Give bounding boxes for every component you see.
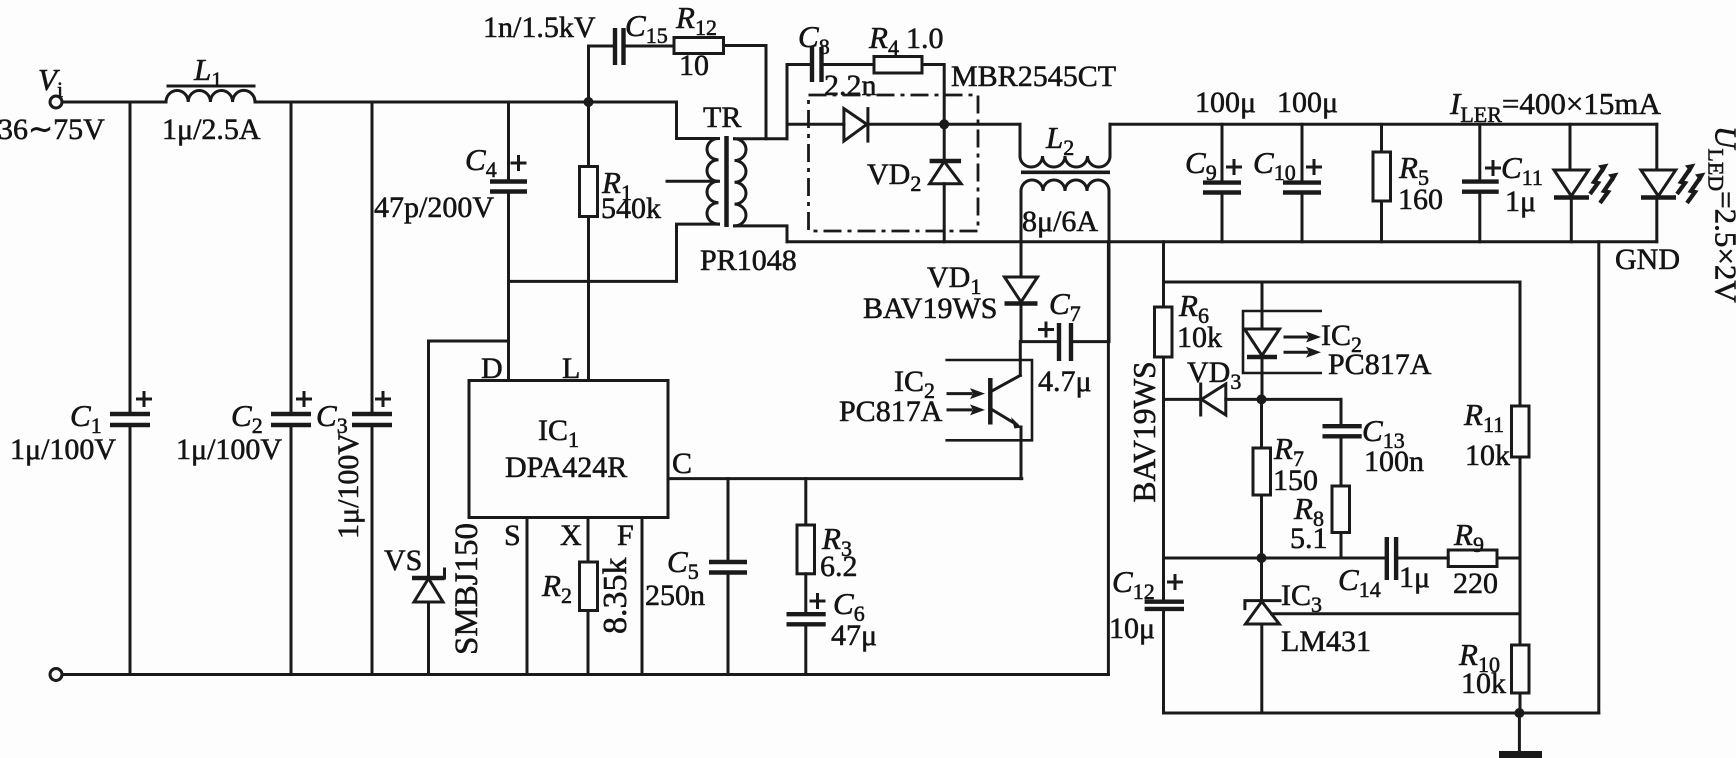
svg-text:TR: TR [703,101,741,134]
wire R12 to secondary top stub [724,46,767,139]
svg-text:BAV19WS: BAV19WS [1127,361,1162,502]
capacitor C6 [787,595,826,625]
diode VD3 [1201,384,1226,415]
wire secondary rail y=124 into rectifier [787,123,844,126]
svg-text:10: 10 [679,49,709,82]
svg-text:1μ: 1μ [1505,185,1536,218]
wire mid feedback rail [1164,557,1387,560]
svg-text:C3: C3 [316,398,348,438]
node junction dot at R1/C15 tap [584,97,594,107]
resistor R7 [1253,448,1271,495]
svg-text:VS: VS [384,544,422,577]
svg-text:F: F [617,519,634,552]
svg-text:L2: L2 [1045,120,1074,160]
wire R5 top [1380,124,1383,152]
resistor R3 [797,525,815,574]
wire secondary top riser to C8 [787,65,812,139]
wire LED1 bottom [1570,198,1573,242]
resistor R2 [580,562,598,611]
wire primary bottom rail [62,673,1108,676]
svg-text:X: X [560,519,582,552]
svg-text:PC817A: PC817A [1328,348,1432,381]
diode VS SMBJ150 (TVS) [412,569,445,602]
resistor R11 [1512,406,1530,457]
LED2 [1641,164,1706,204]
wire LED1 top [1569,124,1572,170]
op-to box IC2 transistor side [945,360,1032,440]
wire VD2 top [943,124,946,161]
svg-text:10k: 10k [1177,321,1222,354]
svg-text:GND: GND [1615,243,1680,276]
svg-text:C11: C11 [1501,150,1543,190]
wire R3 top [804,479,807,525]
inductor L2 bottom winding [1021,180,1109,191]
wire right riser x=1109 [1107,242,1110,675]
svg-text:R12: R12 [675,0,717,40]
svg-text:R9: R9 [1453,517,1484,557]
wire R3 to C6 [804,574,807,614]
svg-text:C: C [672,447,692,480]
svg-text:LM431: LM431 [1281,625,1371,658]
node dot ground junction [1514,708,1524,718]
svg-text:MBR2545CT: MBR2545CT [951,60,1116,93]
wire VD2 anode down to return rail [943,184,946,242]
capacitor C14 [1387,537,1396,580]
svg-text:1.0: 1.0 [906,22,944,55]
svg-text:IC3: IC3 [1281,579,1322,617]
wire C9 column lower [1221,193,1224,242]
svg-text:1μ/100V: 1μ/100V [10,433,116,466]
svg-text:R2: R2 [541,568,572,608]
wire R7 bottom [1260,495,1263,558]
wire C14 to R9 [1396,557,1448,560]
wire TR secondary bottom stub [735,226,788,242]
wire C11 column lower [1478,192,1481,242]
wire X pin to R2 [587,518,590,563]
light arrows out of IC2 LED [1285,332,1321,358]
svg-text:160: 160 [1398,183,1443,216]
wire from C4 column to transformer return (y=281) [509,226,677,282]
svg-text:6.2: 6.2 [820,550,858,583]
wire C5 bottom [727,573,730,675]
wire IC3 anode down [1260,624,1263,713]
resistor R12 [674,38,724,54]
svg-text:C15: C15 [625,8,668,48]
svg-text:VD3: VD3 [1187,356,1241,394]
wire C3 column lower [371,425,374,675]
wire C8 to R4 [822,63,875,66]
wire F pin [641,518,644,675]
svg-text:IC1: IC1 [538,414,579,452]
wire diode to node [867,123,1020,126]
wire feedback left column from return rail [1162,242,1165,307]
wire top rail left (terminal to L1) [62,101,166,104]
svg-text:BAV19WS: BAV19WS [863,292,997,325]
svg-text:R4: R4 [868,20,899,60]
transformer TR secondary winding [735,139,747,226]
svg-text:DPA424R: DPA424R [505,451,627,484]
wire C5 top [727,479,730,562]
wire R9 to R11 column [1497,557,1520,560]
wire VD1 to C7/IC2 [1019,304,1023,376]
wire S pin [526,518,529,675]
wire C15 to R12 [624,45,675,48]
wire feedback left column to C12 [1162,399,1165,601]
LED1 [1554,164,1619,204]
svg-text:D: D [481,352,503,385]
wire C1 column upper [129,102,132,414]
wire R8 bottom [1340,533,1343,559]
svg-text:C2: C2 [231,398,263,438]
resistor R9 [1448,550,1497,567]
wire rail into L2 [1019,124,1022,156]
capacitor C1 [110,393,151,426]
svg-text:8.35k: 8.35k [597,558,634,635]
wire C4 column lower down to IC1 D pin [507,192,510,381]
op-amp IC1 DPA424R box [469,381,668,518]
wire IC3 ref line [1272,612,1520,615]
svg-text:47μ: 47μ [831,619,877,652]
wire C4 column upper [507,102,510,182]
svg-text:PR1048: PR1048 [700,244,797,277]
wire TR primary mid tap stub [667,180,719,183]
svg-text:L: L [562,352,580,385]
svg-text:4.7μ: 4.7μ [1038,365,1092,398]
node dot VD3/R7/LED junction [1257,394,1267,404]
svg-text:C4: C4 [465,142,497,182]
wire R7 top [1260,399,1263,448]
svg-text:1μ: 1μ [1399,561,1430,594]
wire C11 column upper [1478,124,1481,181]
svg-text:1μ/100V: 1μ/100V [176,433,282,466]
svg-text:C12: C12 [1112,564,1155,604]
wire C1 column lower [129,425,132,675]
svg-text:1n/1.5kV: 1n/1.5kV [483,11,596,44]
diode VD2 (freewheel in MBR2545CT) [930,161,962,184]
inductor L1 [166,86,255,102]
light arrows into IC2 [948,388,985,415]
wire C2 column upper [290,102,293,414]
wire IC2 LED cathode down to node [1261,357,1264,399]
svg-text:8μ/6A: 8μ/6A [1022,205,1098,238]
svg-text:100μ: 100μ [1195,86,1256,119]
wire GND drop from return rail [1597,242,1600,713]
svg-text:2.2n: 2.2n [824,69,877,102]
dash-dot box MBR2545CT module [809,95,979,231]
resistor R1 [580,167,598,217]
node bottom input terminal [50,669,62,681]
wire C7 right to riser [1071,340,1108,343]
resistor R4 [874,57,922,74]
wire R6 bottom to VD3 level [1162,357,1165,399]
wire C10 column upper [1301,124,1304,182]
node dot rectifier output [939,119,949,129]
capacitor C10 [1283,161,1321,193]
ground [1499,713,1542,758]
svg-text:VD2: VD2 [867,158,921,196]
wire VS bottom [427,602,430,675]
resistor R6 [1155,307,1173,357]
node Vi input terminal [50,96,62,108]
op-to box IC2 LED side [1243,311,1322,373]
svg-text:C7: C7 [1049,286,1081,326]
capacitor C3 [352,393,392,426]
svg-text:47p/200V: 47p/200V [374,191,494,224]
wire R1 bottom down to IC1 L pin [587,217,590,381]
svg-text:SMBJ150: SMBJ150 [449,523,485,655]
capacitor C9 [1203,161,1241,193]
wire C15 branch from node up [589,46,616,102]
capacitor C4 [490,157,527,192]
wire VD3 to node [1226,398,1341,401]
wire C9 column upper [1221,124,1224,182]
svg-text:10k: 10k [1461,667,1506,700]
svg-text:L1: L1 [193,52,222,92]
wire R11 bottom [1519,457,1522,645]
wire output return rail [787,240,1657,243]
diode VD1 [1005,277,1038,304]
svg-text:1μ/100V: 1μ/100V [332,433,365,539]
wire C6 bottom [804,624,807,674]
wire R1 top [587,102,590,167]
svg-text:10k: 10k [1465,439,1510,472]
svg-text:5.1: 5.1 [1290,522,1328,555]
wire R10 bottom [1519,693,1522,713]
svg-text:100n: 100n [1364,445,1424,478]
wire R2 bottom [587,611,590,675]
wire VS column top [427,341,430,578]
wire LED2 column (right edge) [1655,124,1658,242]
capacitor C5 [709,562,747,573]
wire C2 column lower [290,425,293,675]
wire output top rail [1110,123,1657,126]
svg-text:36∼75V: 36∼75V [0,113,105,146]
inductor L2 top winding [1020,156,1110,167]
resistor R8 [1332,486,1350,533]
wire IC3 cathode from node [1260,558,1263,601]
svg-text:10μ: 10μ [1109,612,1155,645]
transformer TR primary bottom stub [677,224,719,225]
wire C3 column upper [371,102,374,414]
wire from D column to VS (y=341) [429,340,509,343]
inductor L2 core [1021,171,1110,175]
wire VD3 line left part [1164,398,1201,401]
resistor R10 [1512,645,1530,693]
wire C7 tap [1021,340,1059,343]
svg-text:1μ/2.5A: 1μ/2.5A [162,113,261,146]
capacitor C12 [1145,576,1184,609]
transistor IC2 phototransistor [990,375,1021,428]
wire L2 bottom winding right leg (down) [1108,191,1111,342]
wire top rail (L1 to transformer corner) [255,101,677,104]
transformer TR primary top stub [677,102,719,139]
svg-text:C9: C9 [1185,145,1217,185]
wire C12 bottom [1162,609,1165,713]
svg-text:R11: R11 [1463,397,1504,437]
node dot R7 bottom junction [1257,553,1267,563]
wire C10 column lower [1301,193,1304,242]
svg-text:C14: C14 [1338,562,1381,602]
wire IC2 LED anode from top rail [1261,282,1264,329]
svg-text:PC817A: PC817A [839,395,943,428]
IC3 LM431 shunt regulator [1245,601,1280,624]
resistor R5 [1373,152,1391,201]
wire L2 bottom winding left leg (to VD1) [1020,191,1023,277]
wire L2 top winding right riser [1109,124,1112,156]
svg-text:250n: 250n [645,579,705,612]
wire C13 top [1340,399,1343,426]
capacitor C8 [812,47,822,82]
diode series rectifier (in MBR2545CT) [844,109,868,142]
svg-text:S: S [504,519,521,552]
svg-text:C1: C1 [70,398,102,438]
wire feedback bottom rail [1164,712,1599,715]
capacitor C2 [271,393,311,426]
LED inside IC2 [1245,329,1280,357]
wire feedback top rail [1164,281,1521,284]
wire C pin line from IC1 [668,477,1022,480]
svg-text:C10: C10 [1253,145,1296,185]
capacitor C15 [615,28,624,65]
wire C13 to R8 [1340,436,1343,486]
wire IC2 emitter down [1020,427,1023,479]
capacitor C11 [1462,162,1500,192]
svg-text:C5: C5 [667,544,699,584]
svg-text:220: 220 [1453,567,1498,600]
wire R11 column [1519,282,1522,406]
transformer TR core [724,136,729,227]
transformer TR primary winding [707,139,719,225]
capacitor C13 [1323,426,1362,436]
svg-text:C8: C8 [798,19,830,59]
wire R5 bottom [1380,201,1383,242]
capacitor C7 [1040,323,1072,361]
svg-text:100μ: 100μ [1277,86,1338,119]
wire TR secondary top stub [735,137,788,140]
svg-text:ULED=2.5×2V: ULED=2.5×2V [1704,126,1736,303]
svg-text:540k: 540k [601,192,661,225]
wire R4 down to rectifier node [922,65,944,125]
svg-text:Vi: Vi [38,62,63,102]
svg-text:ILER=400×15mA: ILER=400×15mA [1449,86,1661,127]
